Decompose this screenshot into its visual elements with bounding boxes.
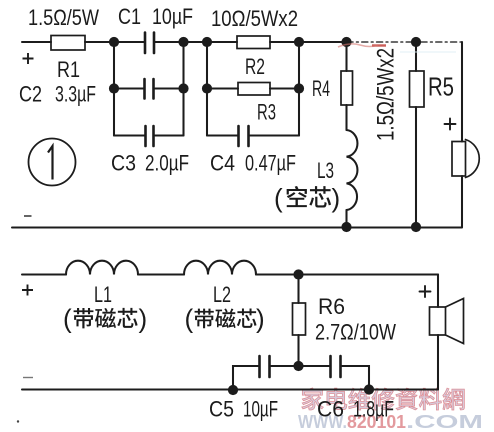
inductor L3 [347,130,358,210]
speaker woofer [430,307,446,335]
svg-text:3.3µF: 3.3µF [55,82,96,107]
svg-text:10Ω/5Wx2: 10Ω/5Wx2 [211,6,298,31]
wire node F to R5 [415,42,417,71]
svg-text:R5: R5 [428,72,454,102]
wire node D to R4 [345,42,347,71]
wire right corner down to woofer [437,275,439,308]
svg-text:): ) [256,304,265,334]
svg-text:10µF: 10µF [152,4,193,29]
node circle 1 marker [29,139,76,186]
wire node A vertical [113,42,115,136]
svg-text:R2: R2 [245,54,265,79]
resistor R3 [238,83,270,96]
svg-text:C3: C3 [111,151,136,176]
wire top circuit bottom rail [12,226,462,228]
cyan scan smudge [400,51,456,53]
svg-text:L3: L3 [317,158,334,183]
wire bottom circuit bottom rail [22,388,438,390]
red scan artifact dash [372,44,386,46]
svg-text:(: ( [185,304,194,334]
wire woofer to bottom [437,335,439,390]
svg-text:L1: L1 [94,282,112,307]
wire node G to R6 [297,275,299,304]
wire R1 to node A [85,41,144,43]
svg-text:R6: R6 [318,294,345,319]
speaker tweeter [452,142,466,177]
wire C4 to node E [250,134,299,136]
capacitor C4 [239,126,249,146]
svg-text:1.8µF: 1.8µF [353,397,394,422]
speck bottom left [17,420,19,422]
wire node C vertical [206,42,208,136]
svg-text:R3: R3 [257,100,276,125]
wire right branch down to tweeter [461,42,463,142]
capacitor C2 (3.3uF) [145,79,154,99]
wire row3 left [114,134,145,136]
plus label at tweeter [445,119,456,130]
svg-text:1.5Ω/5Wx2: 1.5Ω/5Wx2 [373,48,400,141]
inductor L2 [184,261,256,275]
svg-text:C1: C1 [118,4,141,29]
wire R6 to cap row [297,335,299,366]
wire bottom circuit input lead [22,273,66,275]
wire row2 left [114,87,144,89]
svg-text:2.7Ω/10W: 2.7Ω/10W [315,320,396,345]
wire tweeter to bottom [461,176,463,227]
resistor R2 [237,36,270,49]
svg-text:10µF: 10µF [243,397,278,422]
wire C6 right + corner [342,366,369,390]
svg-text:): ) [139,304,148,334]
wire C1 to R2 [155,41,237,43]
svg-text:C5: C5 [209,397,234,422]
svg-text:0.47µF: 0.47µF [245,151,296,176]
svg-text:2.0µF: 2.0µF [145,151,189,176]
svg-text:(: ( [274,183,283,213]
svg-text:L2: L2 [213,282,231,307]
minus terminal top circuit [24,215,32,217]
label L1 core note 带磁芯 [74,308,138,328]
capacitor C3 [146,126,154,146]
plus terminal top circuit [23,53,34,64]
label L3 air-core note 空芯 [287,186,331,208]
capacitor C1 [145,33,154,54]
red scan artifact curve [338,44,378,47]
svg-text:.COM: .COM [406,411,483,432]
svg-text:R4: R4 [312,76,330,101]
svg-text:C6: C6 [317,397,344,422]
wire row2 mid [155,87,184,89]
svg-text:(: ( [63,304,72,334]
resistor R5 [410,71,425,107]
svg-text:R1: R1 [57,57,80,82]
wire C5 to node H [271,365,329,367]
svg-text:): ) [332,183,341,213]
wire row3 mid [155,134,184,136]
resistor R4 [341,71,353,105]
plus label at woofer [420,286,431,297]
wire L2 to right corner [256,273,438,275]
wire node E vertical [298,42,300,136]
minus terminal bottom circuit [23,377,33,379]
svg-text:C2: C2 [19,82,42,107]
svg-text:C4: C4 [210,151,235,176]
wire dashed top right [347,41,462,43]
wire R4 to L3 [345,105,347,130]
plus terminal bottom circuit [22,285,33,296]
wire R2 to node D [270,41,347,43]
wire R5 to bottom [415,107,417,227]
wire node B vertical [182,42,184,136]
wire L3 to bottom [345,210,347,227]
capacitor C6 [331,356,341,377]
watermark 家电维修资料网 [302,388,465,410]
resistor R6 [293,303,306,335]
wire top input lead [22,41,51,43]
label L2 core note 带磁芯 [195,309,257,329]
inductor L1 [66,261,138,275]
capacitor C5 [260,356,270,377]
resistor R1 [51,36,85,51]
wire cap row left + corner [233,366,258,390]
wire L1 to L2 [138,273,184,275]
wire row2 right to R3 [207,87,238,89]
wire row3 right [207,134,238,136]
svg-text:1.5Ω/5W: 1.5Ω/5W [28,5,99,30]
wire R3 to node E [270,87,299,89]
